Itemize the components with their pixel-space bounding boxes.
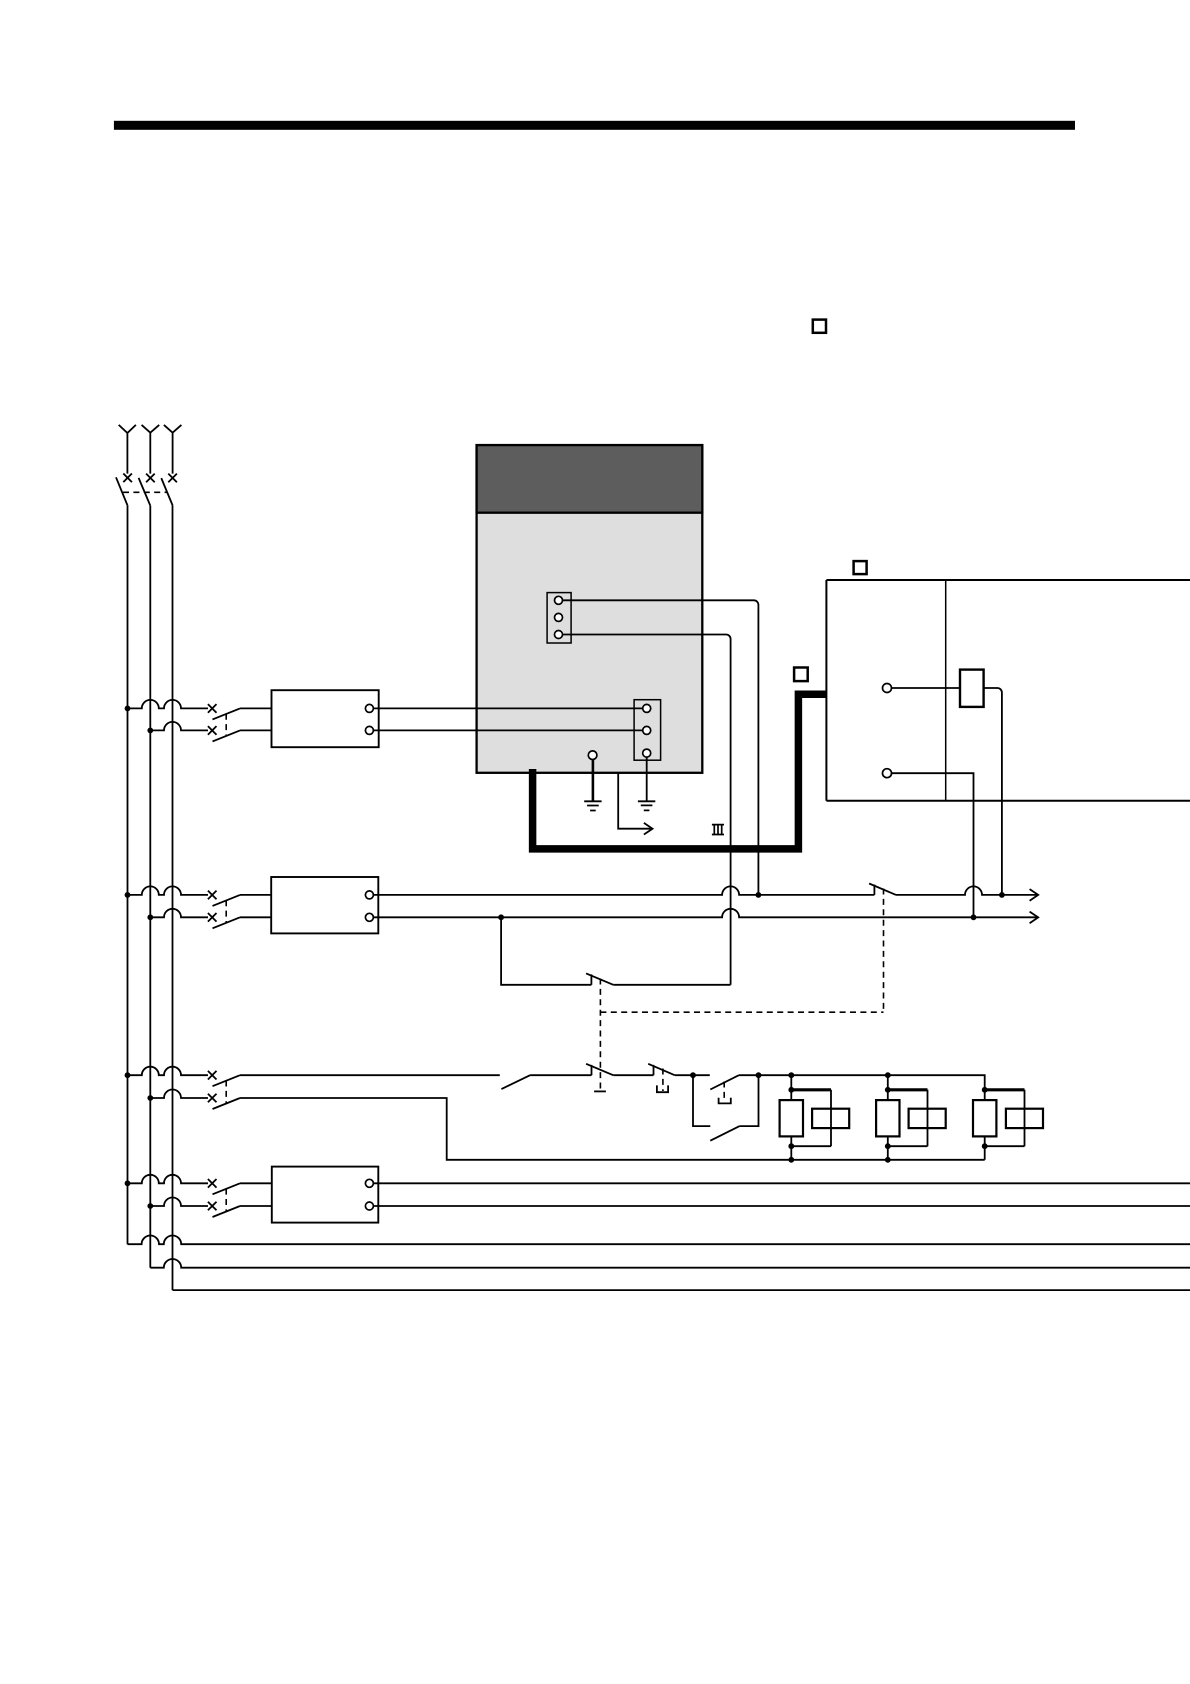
wire row1 lower tap with hop bbox=[150, 722, 208, 731]
wire row1 upper to filter bbox=[240, 707, 272, 709]
node row2 L1 tap junction bbox=[125, 892, 131, 898]
contact RA subloop blade bbox=[586, 973, 613, 984]
wire CN1 pin3 to interlock loop bbox=[563, 635, 731, 985]
wire row4 lower output bbox=[373, 1205, 1190, 1207]
contact MC3 pole2 blade bbox=[213, 1098, 241, 1109]
arrowhead row2 upper bbox=[1030, 889, 1039, 901]
external terminal circle 2 bbox=[883, 769, 892, 778]
breaker NFB pole 3 X mark bbox=[168, 474, 177, 483]
contact MC3 pole1 X mark bbox=[208, 1071, 217, 1080]
CR unit 3 resistor rect bbox=[973, 1100, 996, 1136]
node row2 upper relay junction bbox=[999, 892, 1005, 898]
filter FIL2 terminal a bbox=[365, 891, 373, 899]
node ON branch left junction bbox=[690, 1072, 696, 1078]
wire row3 upper segment bbox=[530, 1074, 591, 1076]
breaker NFB gang dashed link bbox=[123, 491, 167, 493]
wire row4 upper output bbox=[373, 1182, 1190, 1184]
wire row2 upper to filter bbox=[240, 894, 271, 896]
header rule bar bbox=[114, 121, 1075, 130]
node row2 lower subloop junction bbox=[498, 914, 504, 920]
contact OFF pushbutton blade bbox=[586, 1064, 613, 1075]
contact ON pushbutton dashed stem bbox=[723, 1082, 725, 1103]
node row2 lower terminal junction bbox=[971, 914, 977, 920]
class III insulation marker bbox=[712, 825, 724, 835]
note square 3 bbox=[794, 668, 808, 682]
contact emergency stop riser bbox=[653, 1065, 655, 1075]
wire row3 lower run bbox=[240, 1098, 985, 1160]
node row1 L2 tap junction bbox=[147, 728, 153, 734]
contact emergency stop blade bbox=[648, 1064, 675, 1075]
contact MC main row2 blade bbox=[869, 884, 896, 895]
wire row1 upper tap with hops bbox=[128, 700, 209, 709]
contact emergency stop dashed stem bbox=[662, 1069, 664, 1092]
CR unit 3 cap branch bbox=[985, 1090, 1025, 1146]
node row2 upper CN1 junction bbox=[756, 892, 762, 898]
CR unit 3 junction dots bbox=[982, 1087, 988, 1093]
contact RA subloop riser bbox=[590, 974, 592, 984]
node row1 L1 tap junction bbox=[125, 706, 131, 712]
wire row2 lower run with hop bbox=[373, 909, 1037, 918]
contact ON pushbutton head cup bbox=[719, 1098, 731, 1104]
contact MC self-hold blade bbox=[710, 1126, 739, 1141]
contact MC4 pole2 blade bbox=[213, 1206, 241, 1217]
terminal TE pin1 bbox=[643, 704, 651, 712]
wire external terminal 2 branch bbox=[892, 773, 974, 917]
bottom feeder L2 horizontal run with hop bbox=[150, 1259, 1190, 1268]
node row4 L2 tap junction bbox=[147, 1203, 153, 1209]
wire relay RA branch bbox=[892, 688, 1002, 895]
terminal CN1 pin2 bbox=[555, 613, 563, 621]
contact MC4 pole1 blade bbox=[213, 1183, 241, 1194]
contact MC3 pole2 X mark bbox=[208, 1094, 217, 1103]
bottom feeder L1 horizontal run with hops bbox=[128, 1236, 1190, 1245]
wire row2 upper tap with hops bbox=[128, 886, 209, 895]
wire row2 lower to filter bbox=[240, 916, 271, 918]
servo amplifier body bbox=[477, 445, 703, 773]
note square 2 bbox=[854, 561, 867, 574]
CR unit 1 junction dots bbox=[788, 1072, 794, 1078]
contact ON pushbutton blade bbox=[710, 1075, 739, 1089]
node row3 L1 tap junction bbox=[125, 1072, 131, 1078]
feeder line L3 vertical bbox=[172, 505, 174, 1290]
CR unit 3 top bar bbox=[985, 1088, 1025, 1091]
terminal CN1 pin3 bbox=[555, 631, 563, 639]
CR suppressor unit 1 lead bbox=[790, 1075, 792, 1160]
contact MC1 pole1 blade bbox=[213, 708, 241, 719]
CR unit 2 resistor rect bbox=[876, 1100, 899, 1136]
contact MC4 pole2 X mark bbox=[208, 1202, 217, 1211]
contact MC1 pole1 X mark bbox=[208, 704, 217, 713]
wire row4 lower tap with hop bbox=[150, 1198, 208, 1207]
terminal block TE power rect bbox=[634, 700, 661, 761]
wire row4 upper tap with hops bbox=[128, 1175, 209, 1184]
wire row2 upper after contact with hop bbox=[896, 886, 1037, 895]
ground symbol 1 bbox=[584, 801, 601, 810]
CR unit 1 resistor rect bbox=[780, 1100, 803, 1136]
wire filter FIL1 to amplifier L2 bbox=[373, 729, 642, 731]
breaker NFB pole 1 X mark bbox=[123, 474, 132, 483]
wire row3 upper segment 3 bbox=[675, 1074, 710, 1076]
filter FIL3 terminal a bbox=[365, 1179, 373, 1187]
CR unit 2 top bar bbox=[888, 1088, 928, 1091]
arrowhead motor lead bbox=[644, 823, 653, 835]
line noise filter FIL3 box bbox=[272, 1167, 379, 1223]
contact trouble RA2 blade bbox=[501, 1075, 530, 1089]
servo amplifier dark top band bbox=[477, 445, 703, 513]
CR suppressor unit 2 lead bbox=[887, 1075, 889, 1160]
CR unit 2 junction dots bbox=[885, 1072, 891, 1078]
dashed interlock vertical to OFF contact bbox=[599, 979, 601, 1091]
external terminal circle 1 bbox=[883, 684, 892, 693]
contact MC4 gang dashed link bbox=[225, 1189, 227, 1212]
node row4 L1 tap junction bbox=[125, 1180, 131, 1186]
dashed interlock vertical from MC contact bbox=[883, 889, 885, 1013]
protective earth terminal circle bbox=[588, 751, 597, 760]
supply terminal L3 bbox=[164, 425, 182, 474]
relay RA coil bbox=[960, 670, 984, 707]
wire self-hold branch bbox=[693, 1075, 759, 1126]
wire row3 lower tap with hop bbox=[150, 1090, 208, 1099]
CR unit 1 cap branch bbox=[791, 1090, 831, 1146]
terminal CN1 pin1 bbox=[555, 596, 563, 604]
wire TE pin3 to ground bbox=[646, 757, 648, 801]
wire row3 upper tap with hops bbox=[128, 1067, 209, 1076]
wire interlock subloop bbox=[501, 917, 591, 985]
external circuit box outline bbox=[826, 580, 1190, 801]
contact MC2 pole1 X mark bbox=[208, 891, 217, 900]
contact MC3 pole1 blade bbox=[213, 1075, 241, 1086]
filter FIL3 terminal b bbox=[365, 1202, 373, 1210]
contact MC main row2 riser bbox=[873, 885, 875, 895]
breaker NFB pole 2 X mark bbox=[146, 474, 155, 483]
filter FIL1 terminal a bbox=[365, 704, 373, 712]
wire row4 upper to filter bbox=[240, 1182, 272, 1184]
feeder line L1 vertical bbox=[127, 505, 129, 1244]
CR unit 1 top bar bbox=[791, 1088, 831, 1091]
wire row3 upper segment 2 bbox=[613, 1074, 653, 1076]
dashed interlock horizontal bbox=[600, 1011, 883, 1013]
wire CN1 pin1 to row2 junction bbox=[563, 600, 759, 895]
line noise filter FIL2 box bbox=[271, 877, 378, 933]
contact OFF pushbutton riser bbox=[591, 1065, 593, 1075]
node row3 L2 tap junction bbox=[147, 1095, 153, 1101]
arrowhead row2 lower bbox=[1030, 912, 1039, 924]
wire subloop to CN1 lead bbox=[613, 984, 730, 986]
bottom feeder L3 horizontal run bbox=[173, 1289, 1190, 1291]
contact MC2 pole1 blade bbox=[213, 895, 241, 906]
wire filter FIL1 to amplifier L1 bbox=[373, 707, 642, 709]
filter FIL2 terminal b bbox=[365, 913, 373, 921]
contact MC4 pole1 X mark bbox=[208, 1179, 217, 1188]
breaker NFB pole 3 blade bbox=[161, 478, 172, 505]
breaker NFB pole 2 blade bbox=[139, 478, 151, 506]
terminal TE pin3 bbox=[643, 749, 651, 757]
node ON branch right junction bbox=[756, 1072, 762, 1078]
contact MC2 gang dashed link bbox=[225, 900, 227, 922]
contact MC1 gang dashed link bbox=[225, 714, 227, 736]
supply terminal L1 bbox=[119, 425, 136, 474]
wire row3 upper run to suppressors bbox=[739, 1075, 985, 1160]
wire row4 lower to filter bbox=[240, 1205, 272, 1207]
contact MC3 gang dashed link bbox=[225, 1081, 227, 1104]
terminal block CN1 rect bbox=[547, 593, 571, 643]
wire to motor arrow bbox=[618, 773, 651, 829]
contact MC1 pole2 X mark bbox=[208, 726, 217, 735]
contact emergency stop head cup bbox=[657, 1085, 668, 1092]
wire row2 upper run with hops to contact bbox=[373, 886, 874, 895]
terminal TE pin2 bbox=[643, 726, 651, 734]
wire PE terminal down bbox=[592, 760, 595, 802]
wire row3 upper to alarm contact bbox=[240, 1074, 500, 1076]
contact MC2 pole2 X mark bbox=[208, 913, 217, 922]
feeder line L2 vertical bbox=[149, 505, 151, 1267]
ground symbol 2 bbox=[638, 801, 655, 810]
breaker NFB pole 1 blade bbox=[116, 477, 127, 505]
supply terminal L2 bbox=[142, 425, 160, 474]
wire row1 lower to filter bbox=[240, 729, 272, 731]
contact MC2 pole2 blade bbox=[213, 917, 241, 928]
wire row2 lower tap with hop bbox=[150, 909, 208, 918]
external circuit box divider bbox=[945, 580, 947, 801]
contact OFF pushbutton T bar bbox=[594, 1090, 606, 1092]
CR unit 2 capacitor rect bbox=[909, 1109, 946, 1128]
CR unit 3 capacitor rect bbox=[1006, 1109, 1043, 1128]
CR unit 1 capacitor rect bbox=[812, 1109, 849, 1128]
filter FIL1 terminal b bbox=[365, 726, 373, 734]
note square 1 bbox=[813, 320, 826, 333]
node row2 L2 tap junction bbox=[147, 914, 153, 920]
contact MC1 pole2 blade bbox=[213, 730, 241, 741]
thick grounding cable bbox=[533, 694, 827, 849]
CR unit 2 cap branch bbox=[888, 1090, 928, 1146]
line noise filter FIL1 box bbox=[272, 690, 379, 747]
